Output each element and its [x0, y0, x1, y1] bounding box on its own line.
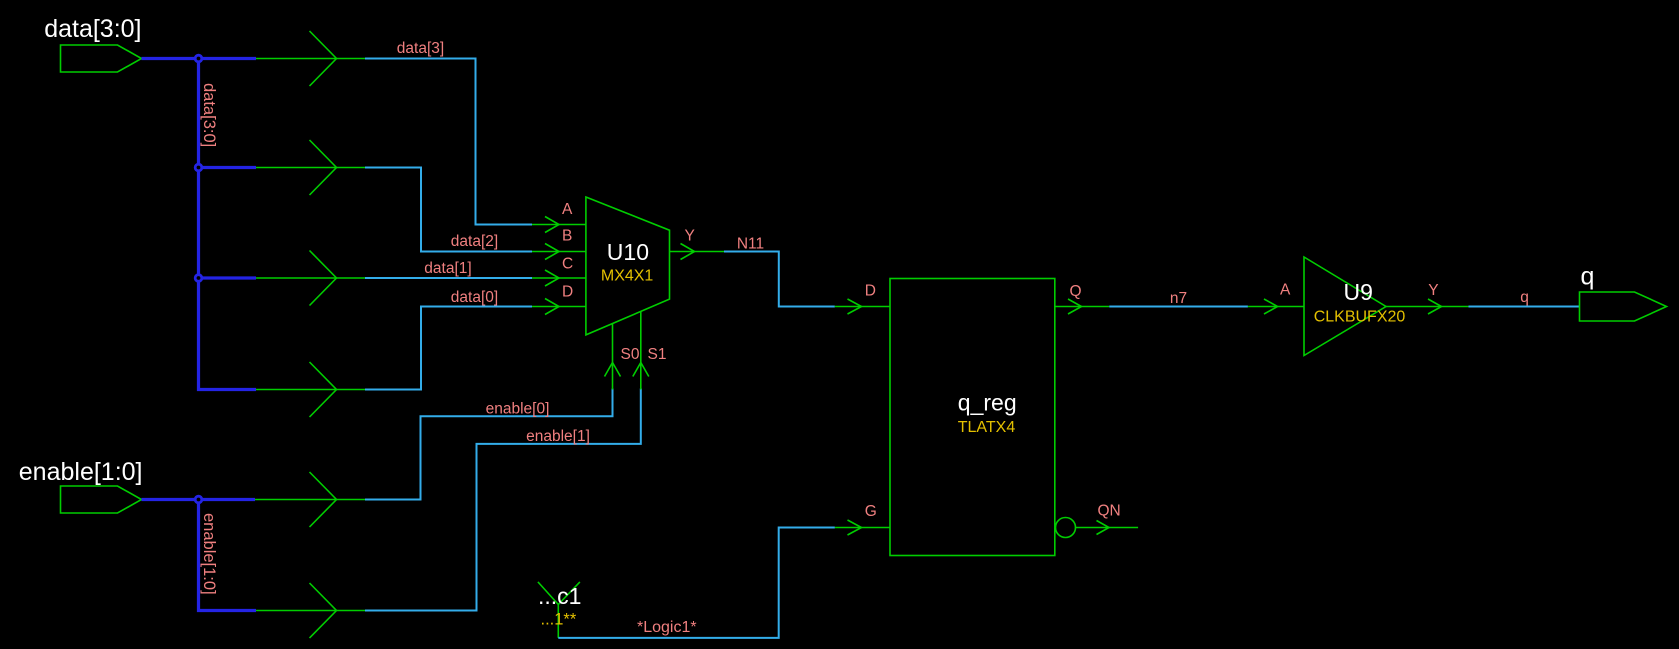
net wire q	[1469, 306, 1580, 308]
bus ripper enable[1]	[256, 583, 365, 638]
svg-text:data[1]: data[1]	[424, 260, 471, 277]
input port data[3:0]	[61, 45, 142, 72]
bus junction at (198,167)	[195, 164, 202, 171]
bus stub to data[2] ripper	[199, 166, 257, 169]
q_reg pin QN stub wire and arrow (unconnected)	[1076, 521, 1138, 535]
net wire enable[0]	[365, 389, 613, 500]
q_reg pin Q output wire and arrow	[1055, 299, 1110, 314]
svg-text:data[3]: data[3]	[397, 40, 444, 57]
svg-text:data[2]: data[2]	[451, 233, 498, 250]
bus ripper data[0]	[256, 362, 365, 417]
bus wire enable[1:0] horizontal from port	[142, 498, 256, 501]
svg-text:Y: Y	[1428, 282, 1438, 299]
svg-text:q: q	[1520, 289, 1529, 306]
svg-text:D: D	[865, 283, 876, 300]
mux U10 body (MX4X1)	[586, 197, 670, 335]
bus wire data[3:0] vertical trunk	[199, 59, 257, 390]
svg-text:D: D	[562, 284, 573, 301]
svg-text:data[3:0]: data[3:0]	[44, 15, 141, 43]
net wire n7	[1109, 306, 1248, 308]
svg-text:Q: Q	[1070, 283, 1082, 300]
svg-text:enable[1]: enable[1]	[526, 428, 590, 445]
bus junction at (198,499)	[195, 496, 202, 503]
net wire *Logic1* to G	[558, 528, 835, 638]
svg-text:C: C	[562, 256, 573, 273]
logic1 tie-high cell ...c1	[538, 582, 580, 638]
bus ripper data[2]	[256, 140, 365, 195]
svg-text:n7: n7	[1170, 290, 1187, 307]
net wire N11	[724, 252, 835, 307]
bus ripper data[3]	[256, 31, 365, 86]
q_reg pin G wire and arrow	[835, 520, 890, 535]
svg-text:*Logic1*: *Logic1*	[637, 619, 697, 636]
svg-text:enable[1:0]: enable[1:0]	[200, 513, 218, 595]
bus wire data[3:0] horizontal from port	[142, 57, 257, 60]
q_reg pin D wire and arrow	[835, 299, 890, 314]
U10 pin A wire and arrow	[532, 217, 586, 233]
U9 pin A wire and arrow	[1248, 299, 1304, 314]
svg-text:N11: N11	[737, 236, 764, 253]
net wire data[1]	[365, 277, 532, 279]
svg-text:TLATX4: TLATX4	[958, 419, 1016, 436]
svg-text:enable[1:0]: enable[1:0]	[19, 458, 143, 486]
svg-text:U9: U9	[1343, 279, 1372, 305]
svg-text:S0: S0	[621, 346, 640, 363]
svg-text:Y: Y	[685, 228, 695, 245]
U10 pin C wire and arrow	[532, 270, 586, 286]
U10 pin S0 wire and arrow	[605, 324, 621, 390]
bus wire enable[1:0] vertical trunk	[199, 500, 257, 611]
bus ripper enable[0]	[255, 472, 365, 527]
svg-text:CLKBUFX20: CLKBUFX20	[1314, 309, 1406, 326]
input port enable[1:0]	[61, 486, 142, 513]
svg-text:...c1: ...c1	[538, 583, 581, 609]
bus stub to data[1] ripper	[199, 276, 257, 279]
svg-text:enable[0]: enable[0]	[486, 401, 550, 418]
svg-text:q_reg: q_reg	[958, 390, 1017, 416]
net wire data[2]	[365, 168, 532, 252]
net wire data[3]	[365, 59, 532, 225]
svg-text:MX4X1: MX4X1	[601, 268, 654, 285]
net wire data[0]	[365, 307, 532, 390]
svg-text:data[3:0]: data[3:0]	[200, 83, 218, 147]
svg-text:A: A	[562, 201, 573, 218]
q_reg latch body (TLATX4)	[890, 279, 1055, 556]
bus junction at (198,277.5)	[195, 275, 202, 282]
svg-text:A: A	[1280, 282, 1291, 299]
svg-text:G: G	[865, 503, 877, 520]
bus junction at (198,58)	[195, 55, 202, 62]
svg-text:q: q	[1581, 263, 1595, 291]
U10 pin D wire and arrow	[532, 299, 586, 315]
U10 pin S1 wire and arrow	[633, 312, 649, 390]
bus ripper data[1]	[256, 251, 365, 306]
output port q	[1580, 292, 1667, 321]
q_reg pin QN bubble	[1056, 518, 1076, 538]
buffer U9 body (CLKBUFX20)	[1304, 257, 1386, 356]
svg-text:data[0]: data[0]	[451, 289, 498, 306]
svg-text:S1: S1	[648, 346, 667, 363]
svg-text:...1**: ...1**	[541, 611, 577, 629]
U10 pin Y output wire and arrow	[670, 244, 725, 260]
net wire enable[1]	[365, 389, 641, 611]
svg-text:B: B	[562, 228, 572, 245]
U9 pin Y output wire and arrow	[1386, 299, 1469, 314]
svg-text:U10: U10	[607, 239, 649, 265]
U10 pin B wire and arrow	[532, 244, 586, 260]
svg-text:QN: QN	[1098, 503, 1121, 520]
